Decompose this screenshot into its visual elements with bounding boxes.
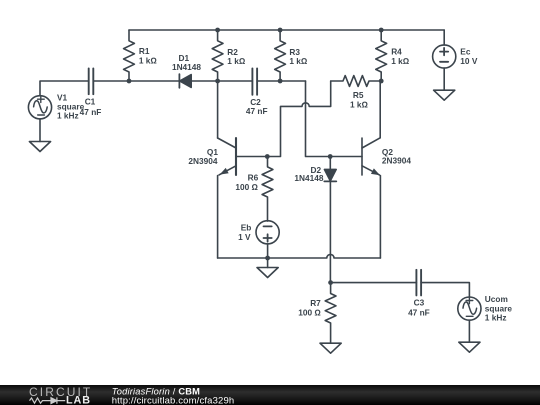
svg-text:http://circuitlab.com/cfa329h: http://circuitlab.com/cfa329h — [112, 396, 235, 405]
wire V1 ground lead — [39, 119, 41, 142]
svg-text:47 nF: 47 nF — [408, 307, 430, 317]
wire Ec top lead — [443, 30, 445, 45]
ground for R7 — [320, 343, 341, 353]
resistor R6 — [262, 157, 273, 222]
resistor R4 — [376, 30, 387, 81]
svg-text:2N3904: 2N3904 — [382, 156, 411, 166]
wire vertical to Q2 base — [306, 81, 363, 157]
resistor R5 — [331, 76, 382, 87]
capacitor C2 — [251, 68, 253, 94]
wire Eb ground lead — [267, 258, 269, 268]
wire D2 to R7 node — [329, 182, 331, 283]
svg-text:2N3904: 2N3904 — [188, 156, 217, 166]
wire V1 to C1 — [40, 81, 89, 96]
ground for Ec — [434, 90, 455, 100]
source V1 — [28, 96, 51, 119]
node top R4 — [379, 28, 384, 33]
svg-text:1 kΩ: 1 kΩ — [139, 56, 158, 66]
resistor R3 — [275, 30, 286, 81]
logo schematic glyph — [30, 397, 66, 403]
svg-text:1 V: 1 V — [238, 232, 251, 242]
node Q1 base / R6 — [265, 154, 270, 159]
wire R7 node to C3 — [331, 282, 417, 284]
wire Q2 emitter — [379, 176, 381, 258]
svg-text:R4: R4 — [391, 46, 402, 56]
transistor Q2 — [362, 138, 381, 178]
wire C1 to D1 — [93, 80, 179, 82]
svg-text:100 Ω: 100 Ω — [235, 182, 258, 192]
node top R3 — [278, 28, 283, 33]
svg-text:47 nF: 47 nF — [246, 106, 268, 116]
node Q2 base / D2 — [328, 154, 333, 159]
svg-text:47 nF: 47 nF — [80, 107, 102, 117]
diode D2 — [329, 157, 331, 170]
resistor R7 — [325, 283, 336, 344]
wire top rail — [129, 29, 444, 31]
svg-text:1 kHz: 1 kHz — [57, 110, 79, 120]
svg-text:C1: C1 — [85, 97, 96, 107]
wire Q1 emitter — [217, 176, 219, 258]
wire Ec ground lead — [443, 68, 445, 90]
node R1 bottom — [127, 79, 132, 84]
node R3 bottom — [278, 79, 283, 84]
wire Q1 base to R5 (with hop) — [236, 81, 331, 157]
wire D1 to C2 — [191, 80, 252, 82]
ground for Ucom — [459, 342, 480, 352]
resistor R2 — [212, 30, 223, 81]
diode D1 — [178, 74, 180, 88]
svg-text:1 kHz: 1 kHz — [485, 313, 507, 323]
wire C2 to corner — [257, 80, 305, 82]
node R2 bottom — [215, 79, 220, 84]
svg-text:100 Ω: 100 Ω — [298, 307, 321, 317]
wire Q2 collector — [379, 81, 381, 138]
ground for V1 — [29, 142, 50, 152]
wire Q1 collector — [217, 81, 219, 138]
svg-text:1 kΩ: 1 kΩ — [350, 99, 369, 109]
svg-text:C3: C3 — [414, 298, 425, 308]
wire Ucom ground lead — [468, 320, 470, 342]
node top R2 — [215, 28, 220, 33]
capacitor C1 — [88, 68, 90, 94]
ground for Eb — [257, 268, 278, 278]
source Eb — [256, 221, 279, 244]
capacitor C3 — [415, 270, 417, 296]
svg-text:R1: R1 — [139, 46, 150, 56]
svg-text:Eb: Eb — [241, 222, 252, 232]
node Eb bottom rail — [265, 256, 270, 261]
source Ec — [433, 45, 456, 68]
transistor Q1 — [218, 138, 236, 177]
node R4 bottom — [379, 79, 384, 84]
svg-text:1 kΩ: 1 kΩ — [289, 56, 308, 66]
svg-text:1 kΩ: 1 kΩ — [227, 56, 246, 66]
wire Eb top lead — [267, 220, 269, 222]
resistor R1 — [124, 30, 135, 81]
node R7 top — [328, 280, 333, 285]
svg-text:1N4148: 1N4148 — [294, 173, 323, 183]
wire bottom rail (with hop) — [218, 254, 381, 258]
wire C3 to Ucom — [421, 283, 469, 297]
svg-text:1 kΩ: 1 kΩ — [391, 56, 410, 66]
wire Eb bottom lead — [267, 244, 269, 258]
source Ucom — [458, 297, 481, 320]
svg-text:10 V: 10 V — [460, 56, 478, 66]
svg-text:1N4148: 1N4148 — [172, 62, 201, 72]
svg-text:LAB: LAB — [66, 395, 91, 405]
